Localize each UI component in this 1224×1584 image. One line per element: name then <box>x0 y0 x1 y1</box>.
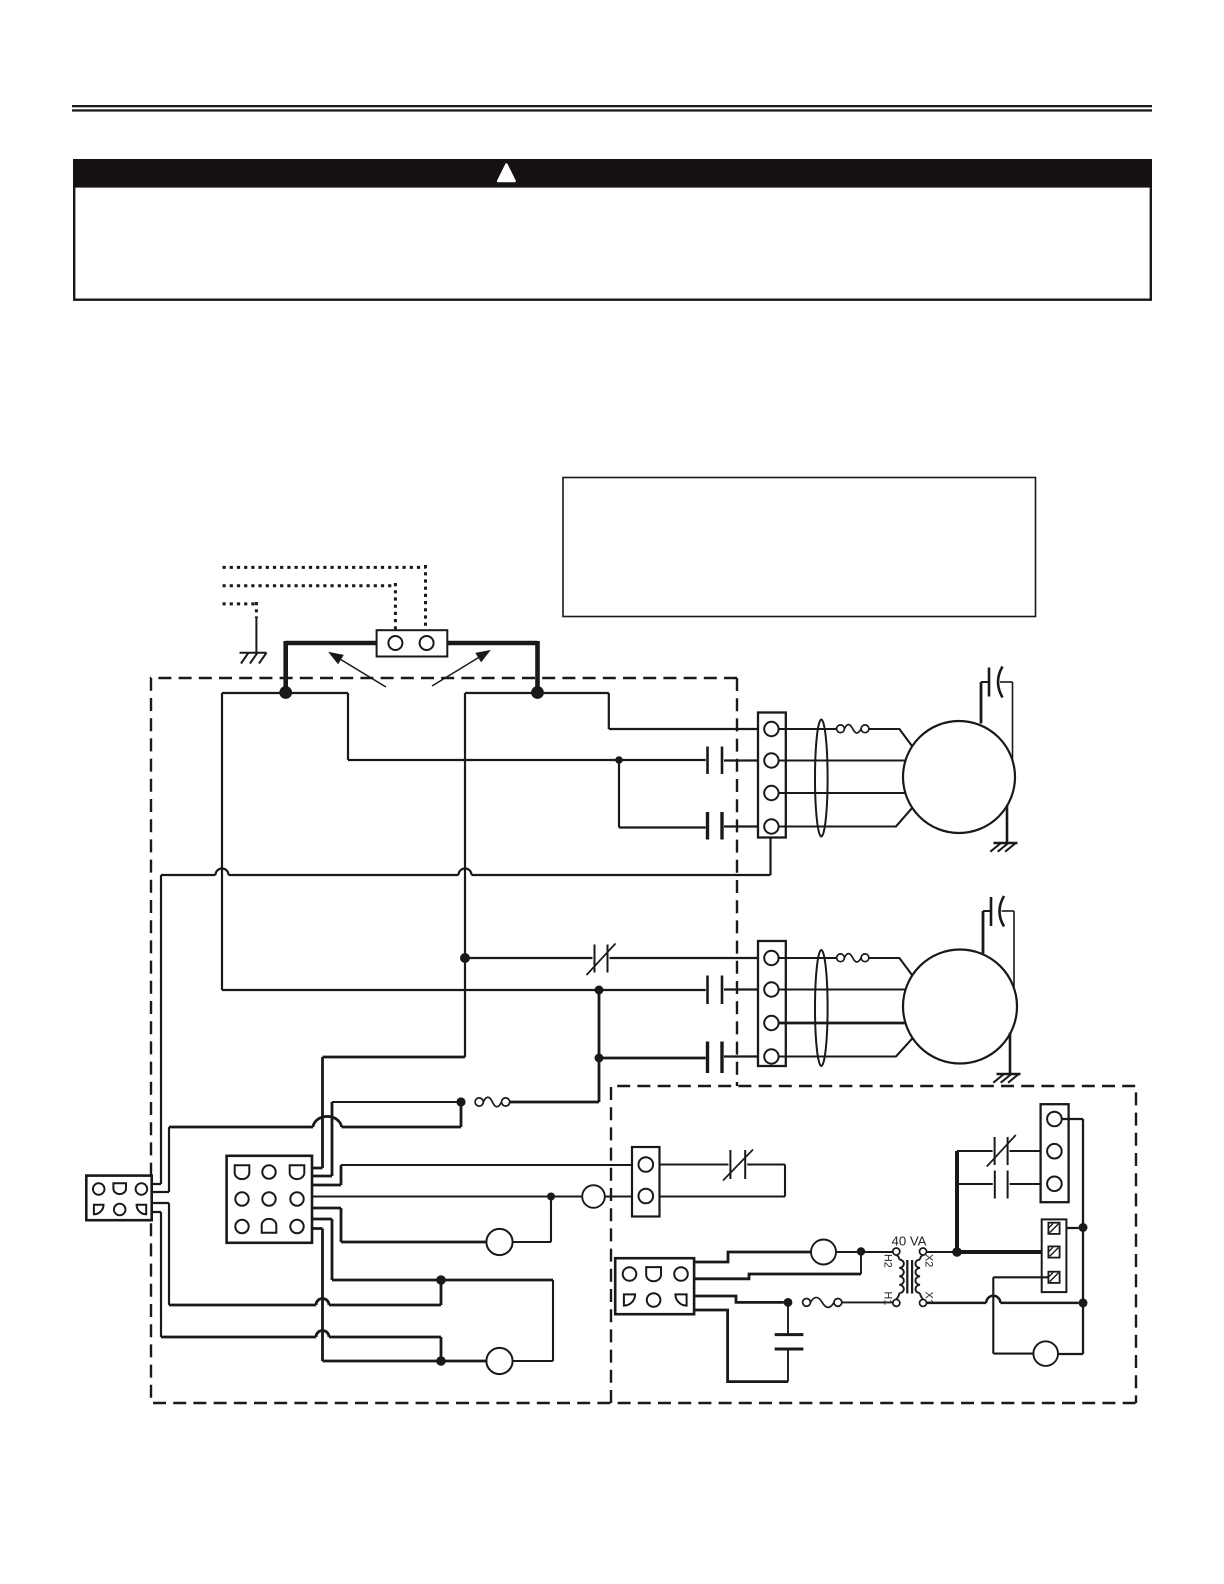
svg-text:H1: H1 <box>882 1292 894 1306</box>
svg-text:X2: X2 <box>923 1254 935 1267</box>
svg-text:40 VA: 40 VA <box>892 1234 927 1249</box>
svg-text:H2: H2 <box>882 1254 894 1268</box>
